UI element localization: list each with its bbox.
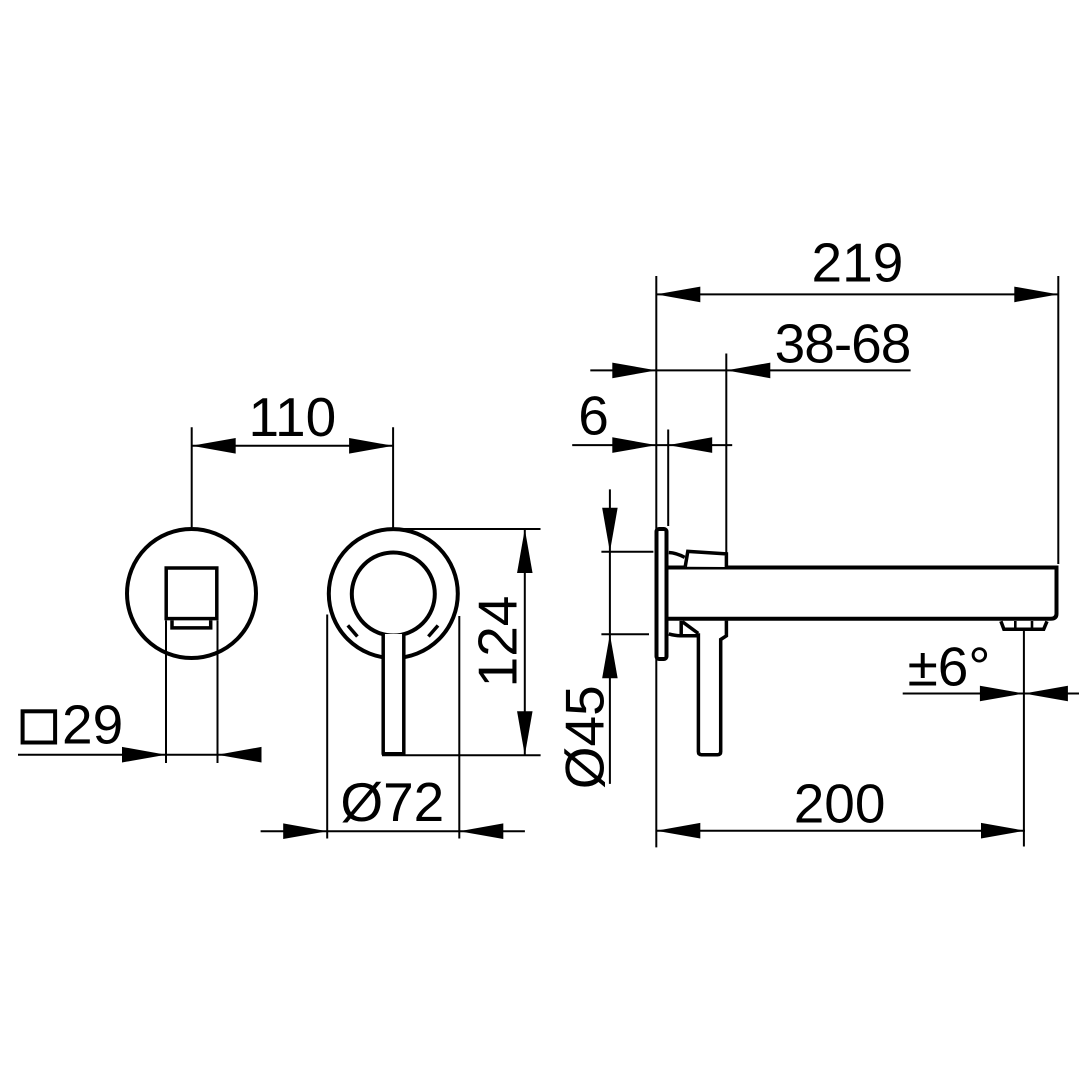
extension line square-29 left (below square)	[165, 621, 167, 764]
svg-text:6: 6	[578, 385, 609, 447]
extension line 110-right (to circle B top)	[392, 427, 394, 527]
arrow dia72 left (outside, pointing right)	[283, 823, 327, 839]
lever handle (side view)	[698, 621, 726, 755]
handle rotation tick mark left	[348, 625, 358, 636]
handle rotation tick mark right	[428, 626, 438, 637]
extension line 219 right (down to spout tip)	[1057, 276, 1059, 564]
arrow 124 top	[517, 529, 533, 573]
arrow 38-68 right (outside, pointing left)	[726, 363, 770, 379]
arrow 110 left	[192, 438, 236, 454]
extension line square-29 right (below square)	[217, 621, 219, 764]
arrow 200 right	[981, 823, 1025, 839]
arrow dia72 right (outside, pointing left)	[459, 823, 503, 839]
arrow 29 left (outside, pointing right)	[122, 747, 166, 763]
extension line dia72 right tangent	[458, 616, 460, 839]
extension line 38-68 right	[725, 354, 727, 557]
wall plate (side view)	[657, 529, 667, 659]
arrow pm6 left (pointing right)	[980, 686, 1024, 702]
svg-text:Ø72: Ø72	[340, 771, 444, 833]
arrow 6 right (outside, pointing left)	[668, 437, 712, 453]
svg-text:200: 200	[794, 773, 886, 835]
dimension 38-68 line	[590, 369, 910, 371]
arrow 6 left (outside, pointing right)	[612, 437, 656, 453]
svg-text:110: 110	[249, 386, 337, 448]
svg-text:124: 124	[467, 596, 529, 688]
escutcheon dome shoulder (top)	[669, 553, 685, 558]
dimension 6 line	[572, 444, 732, 446]
spout (side view)	[669, 568, 1057, 619]
extension line 6 right (to plate top)	[667, 430, 669, 527]
dimension 219 line	[656, 293, 1058, 295]
arrow 219 left	[656, 287, 700, 303]
dimension dia72 line	[261, 830, 525, 832]
arrow 124 bottom	[517, 711, 533, 755]
extension line 124 top (horizontal)	[404, 528, 541, 530]
escutcheon dome shoulder (bottom) + cover block bottom edge	[669, 634, 698, 636]
extension line plus-minus-6 / 200 right vertical (below aerator)	[1023, 631, 1025, 847]
arrow dia45 top (outside, pointing down)	[602, 508, 618, 552]
label square symbol	[23, 711, 56, 742]
arrow 110 right	[349, 438, 393, 454]
svg-text:38-68: 38-68	[775, 313, 911, 375]
dimension 200 line	[656, 830, 1025, 832]
svg-text:Ø45: Ø45	[554, 685, 616, 789]
cover block left edge (bottom)	[679, 621, 683, 636]
extension line dia45 bottom (horizontal)	[601, 633, 649, 635]
aerator divider right	[1031, 621, 1034, 629]
svg-text:219: 219	[812, 232, 904, 294]
dimension 110 line	[192, 445, 393, 447]
svg-text:29: 29	[62, 694, 123, 756]
aerator at spout tip	[1001, 621, 1047, 629]
extension line dia45 top (horizontal)	[601, 551, 653, 553]
aerator divider left	[1014, 621, 1017, 629]
dimension 124 line (vertical)	[524, 529, 526, 755]
spout outlet lip	[172, 620, 211, 628]
extension line 110-left (to circle A top)	[191, 427, 193, 527]
extension line 219-left / 38-68 / 6 / 200 shared long vertical	[655, 276, 657, 847]
handle ring (inner circle)	[352, 553, 435, 636]
arrow dia45 bottom (outside, pointing up)	[602, 634, 618, 678]
square spout outlet	[166, 568, 217, 619]
extension line 124 bottom (horizontal, at lever tip)	[382, 754, 541, 756]
arrow 29 right (outside, pointing left)	[218, 747, 262, 763]
extension line dia72 left tangent	[326, 615, 328, 839]
dimension dia45 line (vertical)	[609, 489, 611, 784]
lever handle (front view, masks circles)	[383, 634, 404, 754]
arrow pm6 right (pointing left)	[1024, 686, 1068, 702]
dimension square-29 line	[18, 754, 254, 756]
cartridge cover block (top)	[685, 551, 726, 567]
arrow 38-68 left (outside, pointing right)	[612, 363, 656, 379]
arrow 219 right	[1014, 287, 1058, 303]
escutcheon circle A (left, with square spout outlet)	[127, 529, 256, 658]
lever cone diagonal	[683, 622, 699, 634]
svg-text:±6°: ±6°	[908, 636, 991, 698]
arrow 200 left	[656, 823, 700, 839]
dimension plus-minus 6deg line	[903, 693, 1079, 695]
handle escutcheon circle B (right, outer)	[329, 529, 458, 658]
